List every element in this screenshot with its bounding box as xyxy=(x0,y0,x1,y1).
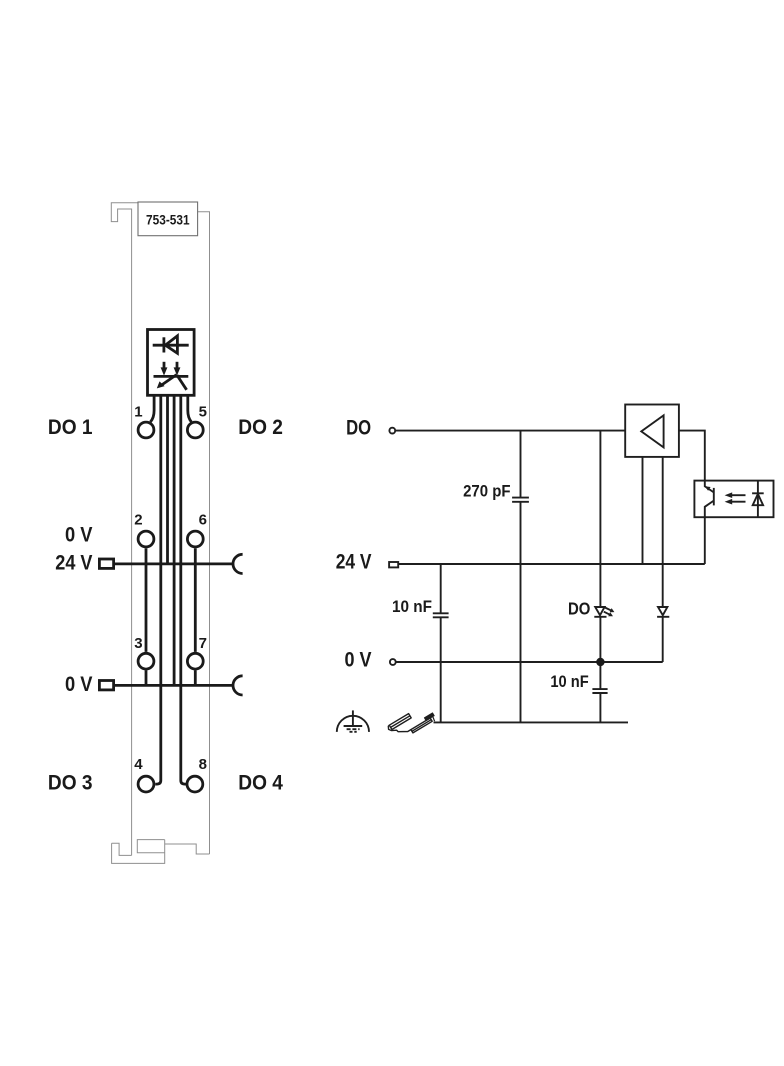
0V wire xyxy=(396,661,662,663)
svg-text:DO 3: DO 3 xyxy=(48,771,93,794)
wire C (to 0V rail) xyxy=(173,395,176,685)
driver U2 (output driver box with triangle) xyxy=(625,405,679,457)
svg-text:4: 4 xyxy=(134,756,143,773)
DIN rail symbol xyxy=(388,713,434,733)
DO terminal xyxy=(389,428,395,434)
svg-text:0 V: 0 V xyxy=(65,673,93,696)
wire pin1 from LED box to contact 1 xyxy=(150,395,154,422)
LED D2 "DO" status xyxy=(594,431,606,689)
wire contact2 to contact3 xyxy=(145,548,148,652)
24V jumper contact arc xyxy=(233,554,243,573)
wire B (to 24V rail) xyxy=(166,395,169,564)
24V rail wire xyxy=(398,563,705,565)
contact 4 xyxy=(138,776,154,792)
contact 1 xyxy=(138,422,154,438)
contact 5 xyxy=(187,422,203,438)
wire contact3 to 0V rail xyxy=(145,670,148,685)
wire contact7 to 0V rail xyxy=(194,670,197,685)
wire contact6 to contact7 xyxy=(194,548,197,652)
phototransistor Q1 inside optocoupler xyxy=(705,481,714,518)
svg-text:DO 2: DO 2 xyxy=(238,416,283,439)
wire optocoupler to 24V rail xyxy=(704,517,706,564)
contact 6 xyxy=(187,531,203,547)
contact 7 xyxy=(187,653,203,669)
svg-text:DO 4: DO 4 xyxy=(238,771,283,794)
LED indicator box U1 xyxy=(148,330,195,396)
contact 3 xyxy=(138,653,154,669)
0V plug symbol xyxy=(99,681,113,690)
module foot (DIN rail clamp profile) xyxy=(112,840,210,864)
24V power rail (module) xyxy=(115,563,233,566)
wire A (to contact 4) xyxy=(155,395,161,784)
svg-text:0 V: 0 V xyxy=(345,648,372,671)
DO wire xyxy=(396,430,625,432)
svg-text:1: 1 xyxy=(134,403,142,420)
wire driver output to optocoupler xyxy=(679,431,705,481)
0V jumper contact arc xyxy=(233,676,243,695)
junction node (0V) xyxy=(596,658,604,666)
svg-text:24 V: 24 V xyxy=(336,551,372,574)
svg-text:2: 2 xyxy=(134,512,142,529)
module outline (753 series bus terminal body) xyxy=(111,203,209,856)
svg-text:0 V: 0 V xyxy=(65,524,93,547)
24V terminal plug xyxy=(389,562,398,567)
diode D1 (status LED, left-pointing) inside box xyxy=(153,336,189,353)
wire D (to contact 8) xyxy=(181,395,186,784)
phototransistor symbol (lower indicator) inside box xyxy=(154,362,189,390)
svg-text:3: 3 xyxy=(134,635,142,652)
contact 2 xyxy=(138,531,154,547)
capacitor C3 10 nF xyxy=(592,689,607,722)
LED D2 emission arrows xyxy=(604,608,615,617)
svg-text:10 nF: 10 nF xyxy=(392,598,432,616)
ground rail wire xyxy=(434,721,629,723)
24V plug symbol xyxy=(99,559,113,568)
svg-text:8: 8 xyxy=(199,756,207,773)
label box 753-531 xyxy=(138,202,198,236)
LED D4 inside optocoupler xyxy=(752,481,764,518)
svg-text:270 pF: 270 pF xyxy=(463,483,510,501)
svg-text:10 nF: 10 nF xyxy=(550,673,588,691)
contact 8 xyxy=(187,776,203,792)
svg-text:DO 1: DO 1 xyxy=(48,416,93,439)
capacitor C1 270 pF xyxy=(512,431,529,723)
svg-text:7: 7 xyxy=(199,635,207,652)
svg-text:5: 5 xyxy=(199,403,207,420)
0V power rail (module) xyxy=(115,684,233,687)
diode D3 xyxy=(657,607,669,662)
svg-text:753-531: 753-531 xyxy=(146,212,190,228)
optocoupler light arrows xyxy=(725,492,746,504)
functional earth symbol xyxy=(337,710,369,732)
wire driver to 24V rail xyxy=(642,457,644,564)
optocoupler U3 xyxy=(694,481,773,518)
svg-text:24 V: 24 V xyxy=(55,551,92,574)
svg-text:DO: DO xyxy=(568,598,590,618)
wire driver to diode D3 branch xyxy=(662,457,664,607)
0V terminal xyxy=(390,659,396,665)
capacitor C2 10 nF xyxy=(433,564,449,722)
svg-text:DO: DO xyxy=(346,417,371,440)
wire pin5 from LED box to contact 5 xyxy=(188,395,192,422)
svg-text:6: 6 xyxy=(199,512,207,529)
